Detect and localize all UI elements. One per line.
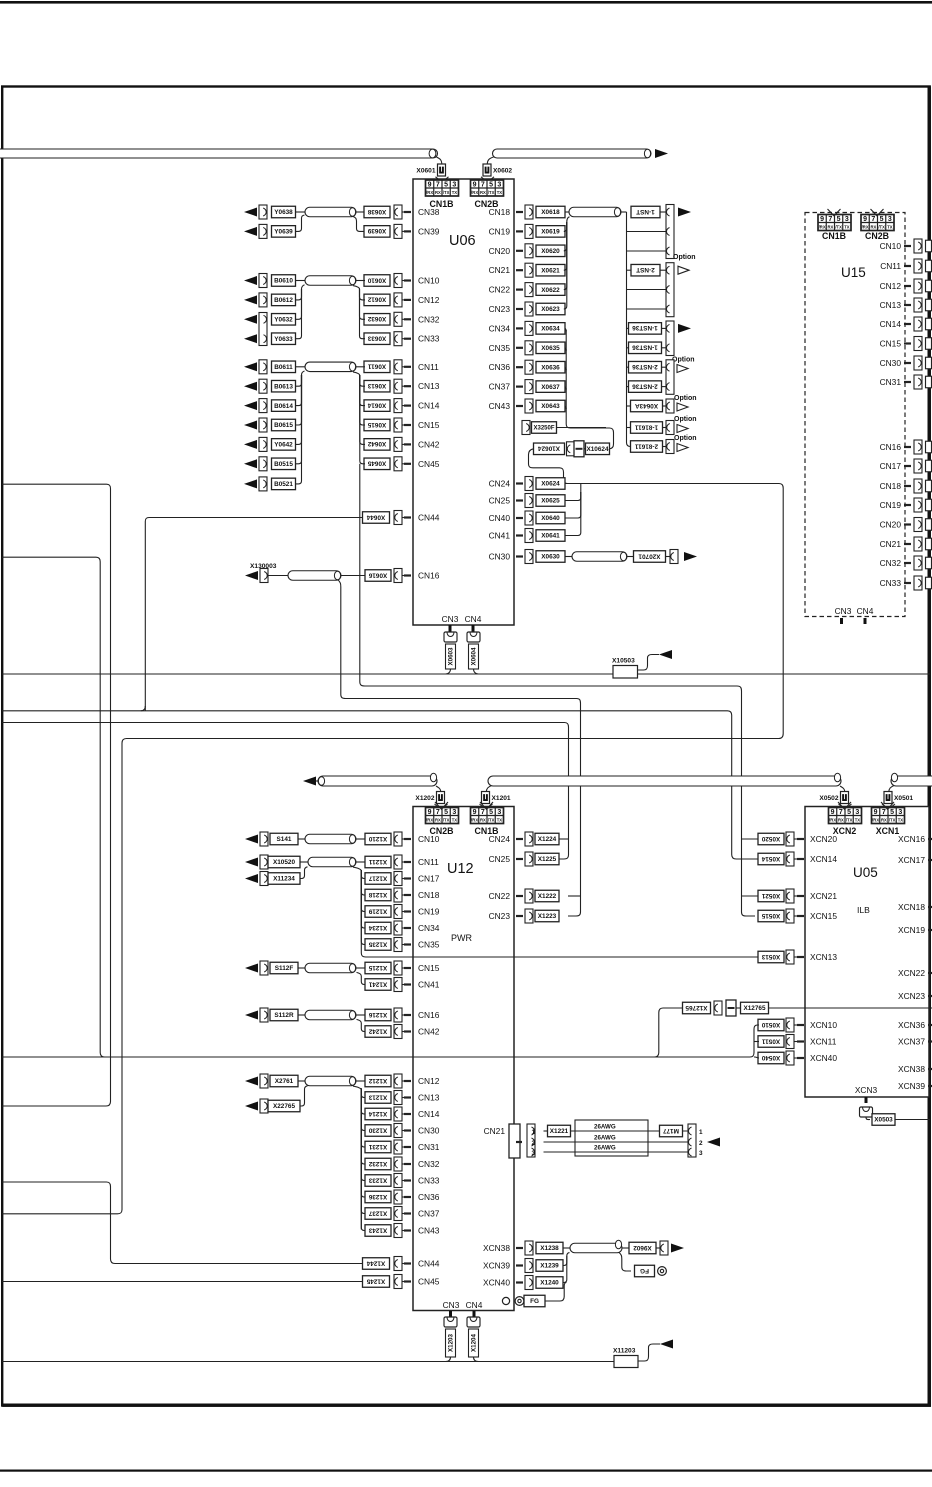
wire xyxy=(828,209,841,216)
svg-text:X1245: X1245 xyxy=(366,1277,385,1284)
wire xyxy=(794,1057,797,1059)
wire xyxy=(402,927,404,929)
arrow out xyxy=(678,208,691,217)
connector X1241 (rotated) xyxy=(365,979,391,991)
pin XCN20 of U05 xyxy=(797,838,804,840)
wire xyxy=(480,804,493,809)
connector X0621 xyxy=(536,264,565,276)
svg-text:CN14: CN14 xyxy=(880,319,902,329)
svg-text:X0633: X0633 xyxy=(367,335,386,342)
arrow in xyxy=(245,1011,258,1020)
svg-text:Option: Option xyxy=(674,416,697,423)
svg-text:X1232: X1232 xyxy=(368,1160,387,1167)
svg-text:CN16: CN16 xyxy=(418,571,440,581)
svg-text:X1238: X1238 xyxy=(540,1245,559,1252)
wire xyxy=(361,1089,365,1114)
connector 1-81611 (rotated) xyxy=(631,422,663,434)
svg-text:9: 9 xyxy=(473,181,477,188)
cable S141 xyxy=(305,834,356,844)
wire xyxy=(298,1014,305,1016)
connector bracket xyxy=(260,832,268,846)
svg-text:X1202: X1202 xyxy=(415,795,434,802)
wire xyxy=(300,870,305,879)
ferrite bead xyxy=(574,441,584,457)
connector X0612 (rotated) xyxy=(364,294,390,306)
wire xyxy=(402,967,404,969)
cable CN38 group xyxy=(305,207,356,217)
pin CN45 of U12 xyxy=(404,1280,411,1282)
connector X1230 (rotated) xyxy=(365,1125,391,1137)
wire xyxy=(361,870,365,945)
pin CN32 of U06 xyxy=(404,318,411,320)
pin CN18 of U06 xyxy=(516,211,523,213)
IC block U05 xyxy=(805,807,929,1098)
connector Y0639 xyxy=(272,226,296,238)
wire xyxy=(402,1180,404,1182)
svg-text:TX: TX xyxy=(497,190,503,195)
svg-text:/RX: /RX xyxy=(426,818,433,823)
svg-text:X0640: X0640 xyxy=(541,515,560,522)
svg-text:CN32: CN32 xyxy=(418,314,440,324)
connector bracket xyxy=(786,889,794,903)
pin CN14 of U12 xyxy=(404,1113,411,1115)
connector X1245 (rotated) xyxy=(363,1276,390,1288)
svg-text:X1223: X1223 xyxy=(538,913,557,920)
svg-text:5: 5 xyxy=(489,181,493,188)
svg-text:5: 5 xyxy=(847,809,851,816)
arrow option xyxy=(677,444,688,452)
svg-text:X1231: X1231 xyxy=(368,1143,387,1150)
pin XCN11 of U05 xyxy=(797,1040,804,1042)
connector X1242 (rotated) xyxy=(365,1026,391,1038)
connector bracket xyxy=(394,418,402,432)
svg-text:7: 7 xyxy=(871,216,875,223)
svg-text:X1243: X1243 xyxy=(368,1226,387,1233)
pin CN43 of U12 xyxy=(404,1229,411,1231)
svg-text:CN11: CN11 xyxy=(418,857,439,867)
pin CN24 of U06 xyxy=(516,482,523,484)
connector bracket xyxy=(394,905,402,919)
arrow option xyxy=(677,365,688,373)
svg-text:CN34: CN34 xyxy=(418,923,440,933)
wire xyxy=(565,492,581,501)
svg-text:CN33: CN33 xyxy=(418,334,440,344)
cable CN18 group xyxy=(569,207,621,217)
svg-text:3: 3 xyxy=(898,809,902,816)
connector below CN4 xyxy=(467,632,480,642)
wire xyxy=(402,424,404,426)
arrow in xyxy=(244,315,257,324)
svg-text:9: 9 xyxy=(820,216,824,223)
wire xyxy=(360,289,366,319)
svg-text:CN37: CN37 xyxy=(489,382,511,392)
svg-text:2-NST: 2-NST xyxy=(636,266,655,273)
wire xyxy=(794,895,797,897)
svg-text:TX: TX xyxy=(452,190,458,195)
svg-text:X0639: X0639 xyxy=(367,227,386,234)
wire xyxy=(866,1117,870,1120)
svg-text:7: 7 xyxy=(828,216,832,223)
svg-text:X0642: X0642 xyxy=(367,440,386,447)
connector B0521 xyxy=(272,478,296,490)
wire chain to CN24 net xyxy=(529,449,568,484)
wire xyxy=(353,217,365,232)
svg-text:X0604: X0604 xyxy=(471,647,478,665)
svg-text:CN36: CN36 xyxy=(418,1192,440,1202)
pin header CN2B of U12 xyxy=(426,808,459,824)
cable CN11 group xyxy=(305,362,356,372)
wire xyxy=(580,484,582,493)
svg-text:/RX: /RX xyxy=(862,225,869,230)
svg-text:/TX: /TX xyxy=(846,818,853,823)
svg-text:9: 9 xyxy=(874,809,878,816)
pin CN20 of U06 xyxy=(516,250,523,252)
connector bracket xyxy=(394,978,402,992)
svg-text:CN11: CN11 xyxy=(880,261,901,271)
svg-text:/TX: /TX xyxy=(835,225,842,230)
svg-text:X0637: X0637 xyxy=(541,384,560,391)
svg-text:/RX: /RX xyxy=(872,818,879,823)
cable X1201 to X0502 xyxy=(488,776,841,786)
wire xyxy=(353,372,360,375)
svg-text:CN23: CN23 xyxy=(489,304,511,314)
wire off-page y711 to U05 XCN14 xyxy=(2,711,759,859)
cable S112R xyxy=(305,1010,356,1020)
wire xyxy=(435,802,448,809)
connector bracket xyxy=(260,569,268,583)
wire xyxy=(486,786,491,792)
connector bracket xyxy=(525,360,533,374)
connector X0637 xyxy=(536,381,565,393)
arrow in xyxy=(660,1340,673,1349)
pin header XCN2 of U05 xyxy=(829,808,862,824)
wire xyxy=(402,517,404,519)
svg-text:X1212: X1212 xyxy=(368,1077,387,1084)
wire xyxy=(360,289,366,300)
wire xyxy=(402,1213,404,1215)
connector bracket xyxy=(259,360,267,374)
connector bracket xyxy=(660,1241,668,1255)
connector B0615 xyxy=(272,419,296,431)
svg-text:XCN40: XCN40 xyxy=(810,1053,837,1063)
cable S112F xyxy=(305,963,356,973)
svg-text:X0645: X0645 xyxy=(367,460,386,467)
svg-text:X11234: X11234 xyxy=(273,876,295,883)
connector bracket xyxy=(786,1051,794,1065)
wire xyxy=(838,802,851,809)
connector X0602 xyxy=(483,164,491,176)
svg-text:CN23: CN23 xyxy=(489,911,511,921)
svg-text:X1235: X1235 xyxy=(368,940,387,947)
svg-text:CN25: CN25 xyxy=(489,496,511,506)
connector X1219 (rotated) xyxy=(365,906,391,918)
svg-text:CN19: CN19 xyxy=(489,226,511,236)
wire xyxy=(565,211,569,213)
svg-text:9: 9 xyxy=(831,809,835,816)
connector bracket xyxy=(525,341,533,355)
svg-text:CN10: CN10 xyxy=(880,241,902,251)
wire xyxy=(360,375,365,386)
pin CN37 of U12 xyxy=(404,1212,411,1214)
svg-text:XCN13: XCN13 xyxy=(810,952,837,962)
arrow in xyxy=(244,459,257,468)
connector X0645 (rotated) xyxy=(364,458,390,470)
connector bracket xyxy=(259,224,267,238)
arrow in xyxy=(245,1077,258,1086)
cable X130003 xyxy=(288,571,341,581)
connector 1-NST36 (rotated) xyxy=(629,323,662,335)
wire xyxy=(402,1097,404,1099)
svg-text:CN41: CN41 xyxy=(489,531,511,541)
svg-text:CN21: CN21 xyxy=(880,539,902,549)
cable sheath 26AWG xyxy=(575,1120,648,1156)
svg-text:RX: RX xyxy=(881,818,887,823)
page top rule xyxy=(0,1,932,4)
svg-text:CN1B: CN1B xyxy=(822,231,846,241)
connector X22765 xyxy=(268,1100,300,1112)
connector bracket xyxy=(394,1207,402,1221)
svg-text:X1213: X1213 xyxy=(368,1093,387,1100)
svg-text:U15: U15 xyxy=(841,265,866,280)
wire xyxy=(361,1089,365,1164)
connector bracket xyxy=(259,457,267,471)
connector bracket xyxy=(525,224,533,238)
svg-text:CN16: CN16 xyxy=(880,442,902,452)
pin CN33 of U06 xyxy=(404,338,411,340)
svg-text:CN31: CN31 xyxy=(418,1142,440,1152)
svg-text:S112R: S112R xyxy=(274,1012,294,1019)
connector X1222 xyxy=(535,890,559,902)
svg-text:S141: S141 xyxy=(277,836,292,843)
svg-text:U06: U06 xyxy=(449,233,476,249)
svg-text:Option: Option xyxy=(674,395,697,402)
connector bracket xyxy=(394,1107,402,1121)
svg-text:CN3: CN3 xyxy=(442,614,459,624)
connector bracket 2-pin xyxy=(666,360,674,395)
svg-text:Option: Option xyxy=(673,254,696,261)
svg-text:5: 5 xyxy=(489,809,493,816)
connector bracket xyxy=(260,961,268,975)
svg-text:Y0642: Y0642 xyxy=(274,442,293,449)
svg-text:3: 3 xyxy=(699,1150,703,1157)
connector X0640 xyxy=(536,512,565,524)
svg-text:X0502: X0502 xyxy=(819,795,838,802)
svg-text:/TX: /TX xyxy=(443,818,450,823)
connector bracket xyxy=(394,1257,402,1271)
connector X1218 (rotated) xyxy=(365,889,391,901)
connector bracket 3-pin xyxy=(666,263,674,317)
wire bus NST options xyxy=(627,212,632,447)
connector bracket 3-pin xyxy=(666,205,674,259)
connector X10624 (rotated) xyxy=(534,443,565,455)
svg-text:CN32: CN32 xyxy=(880,558,902,568)
ground lug xyxy=(658,1267,667,1276)
svg-text:X1225: X1225 xyxy=(538,856,557,863)
wire xyxy=(360,375,365,425)
wire xyxy=(402,1281,404,1283)
connector bracket xyxy=(786,909,794,923)
cable W0601 from left edge xyxy=(0,149,438,158)
wire xyxy=(565,556,572,558)
connector bracket xyxy=(522,421,530,435)
svg-text:X0510: X0510 xyxy=(761,1021,780,1028)
svg-text:CN4: CN4 xyxy=(466,1300,483,1310)
wire xyxy=(302,371,305,375)
connector X1223 xyxy=(535,910,559,922)
svg-text:/TX: /TX xyxy=(488,190,495,195)
svg-text:CN15: CN15 xyxy=(880,339,902,349)
ground lug xyxy=(515,1297,524,1306)
svg-text:X0624: X0624 xyxy=(541,481,560,488)
wire xyxy=(794,956,797,958)
pin CN21 of U06 xyxy=(516,269,523,271)
connector X1225 xyxy=(535,853,559,865)
wire xyxy=(298,967,305,969)
svg-text:9: 9 xyxy=(428,809,432,816)
pin CN37 of U06 xyxy=(516,386,523,388)
svg-text:CN13: CN13 xyxy=(418,1093,440,1103)
svg-text:/RX: /RX xyxy=(819,225,826,230)
svg-text:X0602: X0602 xyxy=(493,168,512,175)
wire xyxy=(360,375,365,444)
wire xyxy=(736,1007,741,1009)
connector bracket xyxy=(259,379,267,393)
svg-text:CN37: CN37 xyxy=(418,1209,440,1219)
connector bracket xyxy=(394,274,402,288)
wire xyxy=(353,286,360,289)
svg-text:X1221: X1221 xyxy=(550,1128,569,1135)
svg-text:CN19: CN19 xyxy=(880,500,902,510)
arrow in xyxy=(245,874,258,883)
svg-text:CN34: CN34 xyxy=(489,323,511,333)
svg-text:X0521: X0521 xyxy=(761,892,780,899)
connector bracket xyxy=(394,569,402,583)
wire xyxy=(402,575,404,577)
wire xyxy=(341,575,365,577)
svg-text:XCN39: XCN39 xyxy=(483,1261,510,1271)
connector B0612 xyxy=(272,294,296,306)
connector bracket xyxy=(525,477,533,491)
arrow option xyxy=(678,266,689,274)
wire xyxy=(402,984,404,986)
wire xyxy=(402,878,404,880)
svg-text:XCN37: XCN37 xyxy=(898,1037,925,1047)
pin CN34 of U06 xyxy=(516,327,523,329)
svg-text:X0511: X0511 xyxy=(761,1037,780,1044)
pin CN22 of U06 xyxy=(516,289,523,291)
pin CN45 of U06 xyxy=(404,463,411,465)
connector bracket xyxy=(525,494,533,508)
svg-text:CN20: CN20 xyxy=(880,520,902,530)
pin CN35 of U12 xyxy=(404,943,411,945)
connector bracket xyxy=(260,872,268,886)
svg-text:1-NST36: 1-NST36 xyxy=(632,324,658,331)
svg-text:Y0632: Y0632 xyxy=(274,317,293,324)
wire xyxy=(446,669,451,674)
wire off-page to U12 CN45 xyxy=(2,1281,363,1283)
svg-text:CN30: CN30 xyxy=(418,1126,440,1136)
connector X0620 xyxy=(536,245,565,256)
pin CN38 of U06 xyxy=(404,211,411,213)
connector bracket xyxy=(786,852,794,866)
svg-text:2: 2 xyxy=(532,1140,536,1147)
arrow option xyxy=(677,403,688,411)
svg-text:X1230: X1230 xyxy=(368,1126,387,1133)
pin CN11 of U12 xyxy=(404,861,411,863)
svg-text:RX: RX xyxy=(480,190,486,195)
connector X1203 (rotated vertical) xyxy=(446,1329,456,1357)
pin CN36 of U12 xyxy=(404,1196,411,1198)
connector bracket xyxy=(394,1275,402,1289)
svg-text:CN12: CN12 xyxy=(418,1076,440,1086)
svg-text:CN15: CN15 xyxy=(418,420,440,430)
connector bracket xyxy=(525,909,533,923)
connector bracket xyxy=(394,399,402,413)
wire xyxy=(402,1146,404,1148)
connector bracket xyxy=(394,855,402,869)
arrow in xyxy=(244,295,257,304)
connector X12765 xyxy=(741,1002,769,1014)
svg-text:X9602: X9602 xyxy=(633,1244,652,1251)
wire xyxy=(402,299,404,301)
svg-text:26AWG: 26AWG xyxy=(594,1124,616,1131)
svg-text:CN33: CN33 xyxy=(418,1176,440,1186)
wire xyxy=(298,838,305,840)
arrow in xyxy=(244,421,257,430)
svg-text:XCN14: XCN14 xyxy=(810,854,837,864)
connector B0613 xyxy=(272,380,296,392)
wire xyxy=(316,780,320,782)
wire bus X11203 line xyxy=(2,1361,614,1363)
svg-text:3: 3 xyxy=(888,216,892,223)
connector below CN4 xyxy=(467,1317,480,1327)
connector bracket xyxy=(525,832,533,846)
svg-text:X0621: X0621 xyxy=(541,267,560,274)
pin CN18 of U12 xyxy=(404,894,411,896)
svg-text:X0615: X0615 xyxy=(367,421,386,428)
connector bracket xyxy=(525,263,533,277)
wire xyxy=(296,375,302,406)
connector bracket xyxy=(525,283,533,297)
wire CN16 net to U12 CN22/CN23 xyxy=(338,580,581,916)
svg-text:X1215: X1215 xyxy=(368,964,387,971)
connector bracket 2-pin xyxy=(666,321,674,356)
IC block U12 xyxy=(413,807,514,1311)
pin CN42 of U12 xyxy=(404,1030,411,1032)
connector X0521 (rotated) xyxy=(758,890,784,902)
wire xyxy=(571,1130,689,1132)
wire xyxy=(361,1089,365,1098)
pin CN34 of U12 xyxy=(404,927,411,929)
connector bracket xyxy=(394,1124,402,1138)
svg-text:XCN39: XCN39 xyxy=(898,1081,925,1091)
connector X3250F (rotated) xyxy=(532,422,557,434)
arrow in xyxy=(244,440,257,449)
svg-text:X1222: X1222 xyxy=(538,893,557,900)
pin header XCN1 of U05 xyxy=(872,808,905,824)
svg-text:X10503: X10503 xyxy=(612,658,635,665)
pin XCN21 of U05 xyxy=(797,895,804,897)
wire xyxy=(563,1256,567,1283)
connector bracket xyxy=(394,511,402,525)
connector X0638 (rotated) xyxy=(364,206,390,218)
svg-text:X0632: X0632 xyxy=(367,315,386,322)
svg-text:CN20: CN20 xyxy=(489,246,511,256)
wire xyxy=(895,1119,930,1121)
wire xyxy=(302,285,305,289)
svg-text:3: 3 xyxy=(497,809,501,816)
svg-text:CN42: CN42 xyxy=(418,1027,440,1037)
